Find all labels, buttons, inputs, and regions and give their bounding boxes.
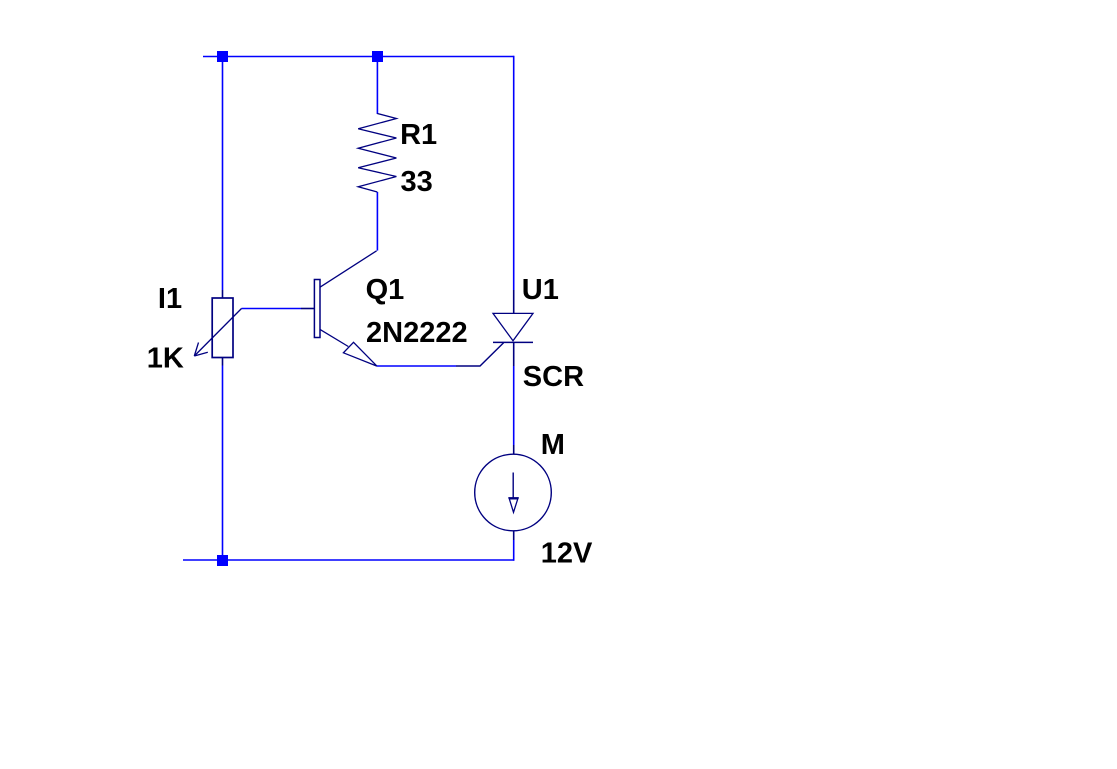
svg-text:2N2222: 2N2222 [366, 317, 468, 349]
svg-text:Q1: Q1 [366, 274, 405, 306]
svg-text:1K: 1K [147, 343, 184, 375]
svg-text:I1: I1 [158, 283, 182, 315]
svg-text:33: 33 [401, 166, 433, 198]
svg-text:M: M [541, 429, 565, 461]
svg-text:SCR: SCR [523, 361, 584, 393]
svg-text:12V: 12V [541, 537, 593, 569]
svg-text:R1: R1 [400, 119, 437, 151]
svg-text:U1: U1 [522, 274, 559, 306]
